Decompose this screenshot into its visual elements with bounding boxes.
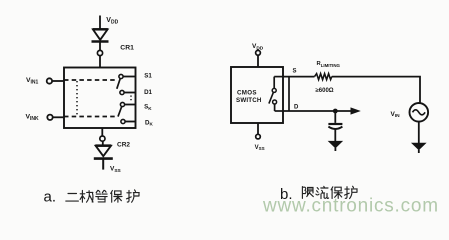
watermark www.cntronics.com <box>262 196 439 217</box>
svg-text:≥600Ω: ≥600Ω <box>316 88 334 94</box>
source VIN (sine) <box>410 103 429 122</box>
wire resistor to source <box>332 77 420 104</box>
label CMOS SWITCH <box>236 90 262 105</box>
label D <box>294 104 299 110</box>
wire box double edge S-D <box>288 77 290 111</box>
svg-text:D1: D1 <box>144 89 152 96</box>
ground (source) <box>412 143 425 153</box>
svg-text:VSS: VSS <box>110 166 122 174</box>
wire CMOS box to VSS <box>257 123 259 134</box>
svg-text:RLIMITING: RLIMITING <box>317 61 341 68</box>
wire source to ground <box>418 122 420 144</box>
svg-text:SWITCH: SWITCH <box>236 97 262 104</box>
CMOS switch box <box>231 67 283 123</box>
caption a chinese: 二极管保护 <box>66 190 139 202</box>
svg-text:VIN1: VIN1 <box>26 77 39 86</box>
terminal VSS (circuit b) <box>256 134 261 139</box>
IC box (multiplexer) <box>64 68 136 129</box>
wire box to CR2 <box>101 128 103 136</box>
svg-text:CR1: CR1 <box>120 44 134 51</box>
svg-text:D: D <box>294 104 299 110</box>
wire VDD to CMOS box <box>257 55 259 67</box>
label >=600 ohm <box>316 88 334 94</box>
label VSS (circuit a) <box>110 166 122 174</box>
dashed wire channel 1 <box>64 79 116 81</box>
svg-text:a.: a. <box>44 188 57 205</box>
capacitor C load <box>328 111 342 141</box>
svg-text:CR2: CR2 <box>117 141 130 148</box>
label VIN1 <box>26 77 39 86</box>
svg-text:SK: SK <box>144 104 152 111</box>
svg-text:VIN: VIN <box>391 111 401 119</box>
wire VINK to box <box>53 116 64 118</box>
terminal VIN1 <box>47 78 52 83</box>
wire VDD stub (circuit a) <box>99 16 101 30</box>
dotted ellipsis switches <box>130 96 132 103</box>
label DK <box>145 119 153 126</box>
svg-text:VSS: VSS <box>255 145 265 151</box>
label VDD (circuit a) <box>106 17 118 26</box>
svg-text:S1: S1 <box>144 72 152 79</box>
dotted ellipsis channels <box>76 81 78 116</box>
diode CR1 <box>92 29 109 50</box>
svg-text:VDD: VDD <box>106 17 118 26</box>
label VIN <box>391 111 401 119</box>
caption b <box>280 186 293 203</box>
label S <box>293 68 297 74</box>
terminal VDD (circuit b) <box>256 50 261 55</box>
switch SK-DK <box>118 102 136 123</box>
label VSS (circuit b) <box>255 145 265 151</box>
node CR1 cathode <box>97 50 102 55</box>
label VINK <box>26 113 40 122</box>
label D1 <box>144 89 152 96</box>
junction node D-capacitor <box>333 109 338 114</box>
caption b chinese: 限流保护 <box>302 186 357 198</box>
resistor R_LIMITING <box>315 74 332 80</box>
node CR2 anode <box>100 136 105 141</box>
svg-text:S: S <box>293 68 297 74</box>
label CR2 <box>117 141 130 148</box>
svg-text:www.cntronics.com: www.cntronics.com <box>262 196 439 217</box>
label SK <box>144 104 152 111</box>
wire VIN1 to box <box>52 80 64 82</box>
switch S1-D1 <box>117 74 136 94</box>
diode CR2 <box>94 141 113 169</box>
wire D with arrow <box>283 107 361 114</box>
label VDD (circuit b) <box>252 43 264 51</box>
svg-text:VINK: VINK <box>26 113 40 122</box>
ground (capacitor) <box>329 141 342 151</box>
switch inside CMOS box <box>269 77 283 111</box>
label S1 <box>144 72 152 79</box>
wire node to IC box <box>99 56 101 68</box>
caption a <box>44 188 57 205</box>
svg-text:DK: DK <box>145 119 153 126</box>
dashed wire channel K <box>64 116 115 118</box>
svg-text:CMOS: CMOS <box>237 90 257 97</box>
label CR1 <box>120 44 134 51</box>
label R LIMITING <box>317 61 341 68</box>
terminal VINK <box>47 115 52 120</box>
wire S to resistor <box>283 76 315 78</box>
